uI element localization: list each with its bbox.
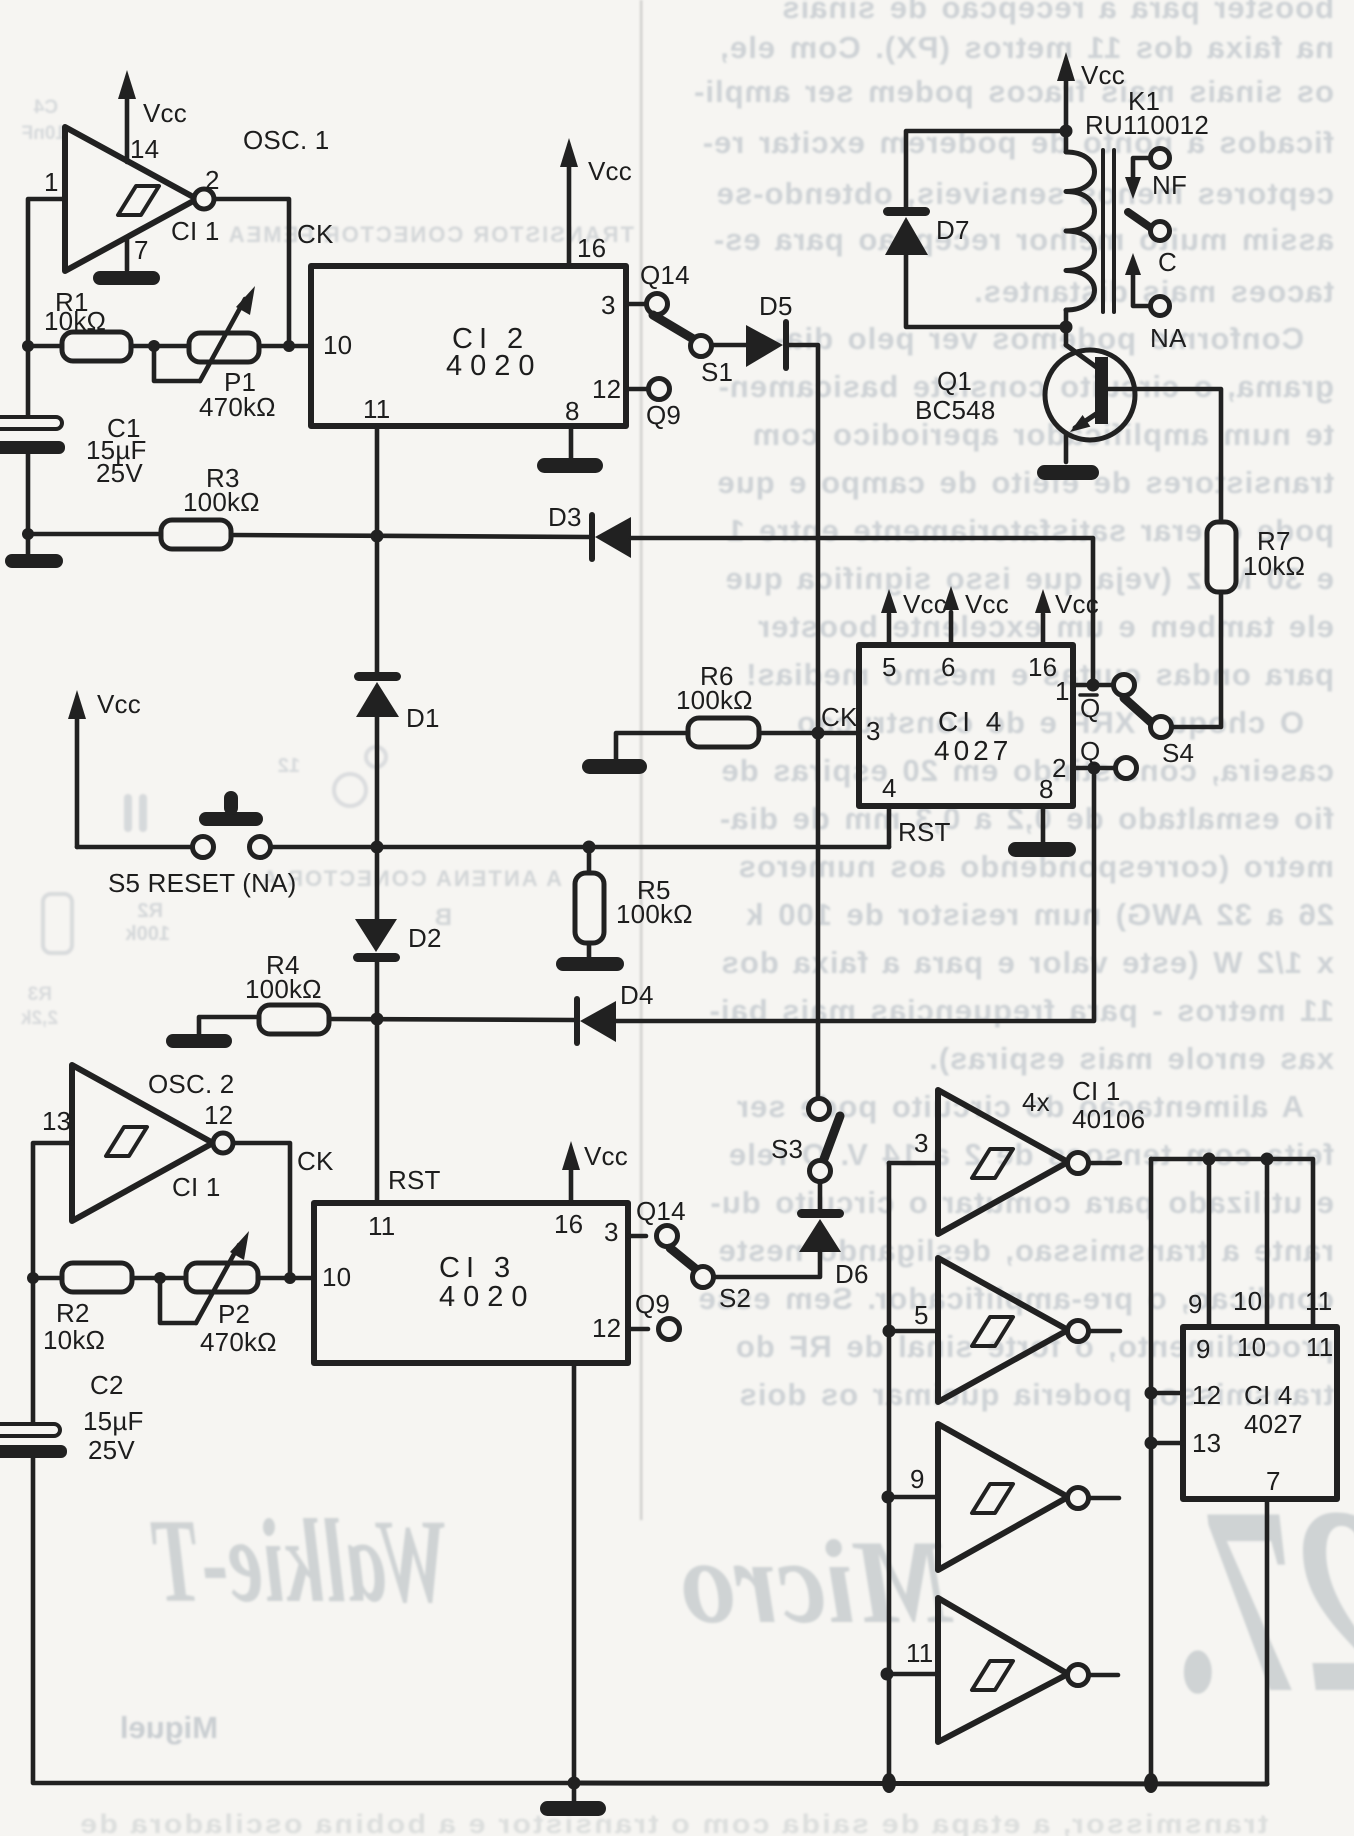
diode D1 [354,672,401,717]
wire D3 to Qbar column [631,538,1093,685]
wire CK feedback [214,199,289,346]
node R2 left [27,1272,39,1284]
svg-text:ele tambem e um excelente boos: ele tambem e um excelente booster [757,609,1334,644]
wire D7 bottom [906,255,1066,327]
diode D3 [592,515,631,559]
wire inverter A input [889,1161,938,1166]
relay contact C [1151,222,1170,241]
node inverter B input [883,1325,896,1338]
svg-text:P2: P2 [218,1299,250,1329]
svg-text:11: 11 [368,1211,395,1241]
svg-text:Walkie-T: Walkie-T [150,1494,450,1627]
svg-text:RU110012: RU110012 [1085,110,1209,140]
svg-text:os sinais mais fracos podem se: os sinais mais fracos podem ser ampli- [693,74,1334,109]
wire R7 to S4 [1172,592,1221,727]
svg-text:4027: 4027 [934,735,1012,766]
wire C1 top [26,346,31,417]
svg-text:10: 10 [322,1262,351,1292]
svg-text:3: 3 [601,290,616,320]
svg-text:S3: S3 [771,1134,803,1164]
svg-text:470kΩ: 470kΩ [199,392,276,422]
svg-text:16: 16 [554,1209,583,1239]
wire pin 2 [1073,766,1115,771]
wire [132,1276,186,1281]
diode D4 [577,999,616,1043]
svg-text:2: 2 [205,165,220,195]
svg-text:C2: C2 [90,1370,124,1400]
svg-text:D5: D5 [759,291,793,321]
node rail CI3 pin8 [568,1777,581,1790]
label Qbar [1080,693,1100,723]
svg-text:Q: Q [1080,736,1100,766]
svg-text:8: 8 [565,396,580,426]
node relay top [1060,125,1073,138]
switch S3 lever [824,1116,840,1159]
relay core bars [1103,150,1114,312]
switch S3 terminal bottom [810,1161,831,1182]
wire inverter B input [889,1329,938,1334]
node Q14 terminal CI3 [657,1226,678,1247]
ground CI4 pin 8 [1008,806,1076,857]
diode D7 [883,207,930,255]
node Q output terminal [1116,758,1137,779]
svg-text:12: 12 [1192,1380,1221,1410]
svg-text:Vcc: Vcc [97,689,141,719]
svg-text:xas enrole mais espiras).: xas enrole mais espiras). [928,1041,1334,1076]
svg-text:Miguel: Miguel [120,1710,218,1745]
svg-text:4020: 4020 [446,350,543,382]
Vcc arrow relay [1057,52,1075,131]
svg-text:100kΩ: 100kΩ [616,899,693,929]
wire top bus [1151,1159,1313,1327]
wire D4 to Q column [616,768,1094,1021]
wire pin 1 [1073,683,1113,688]
wire CI2 pin 11 down [375,426,380,536]
resistor R4 [259,1005,329,1034]
svg-text:13: 13 [1192,1428,1221,1458]
wire D6 to S2 [714,1252,820,1277]
svg-text:D1: D1 [406,703,440,733]
wire D1 to S5 line [375,717,380,847]
svg-text:1: 1 [44,167,59,197]
svg-text:D7: D7 [936,215,970,245]
node CK crossing [812,727,825,740]
wire pin 10 drop [1265,1159,1270,1327]
wire pin 3 CI3 [628,1234,646,1239]
IC CI2 4020 box [311,266,626,426]
svg-text:x 1/2 W (este valor e para a f: x 1/2 W (este valor e para a faixa dos [721,945,1334,980]
wire pin3 [626,302,646,307]
Vcc arrow OSC1 pin 14 [118,70,136,162]
svg-text:CI 4: CI 4 [1244,1380,1292,1410]
svg-text:12: 12 [204,1100,233,1130]
pushbutton S5 [193,791,271,858]
node Q9 terminal CI3 [659,1319,680,1340]
svg-text:3: 3 [604,1217,619,1247]
wire input OSC1 [28,199,65,346]
wire pin12 [626,387,648,392]
inverter D (pin 11) [938,1598,1118,1742]
svg-text:100kΩ: 100kΩ [245,974,322,1004]
svg-text:S1: S1 [701,357,733,387]
svg-text:10: 10 [1233,1286,1262,1316]
transistor Q1 [1045,327,1135,462]
svg-text:9: 9 [1196,1334,1211,1364]
wire input OSC2 [33,1143,72,1278]
svg-text:Q9: Q9 [635,1289,670,1319]
switch S4 terminal bottom [1151,717,1172,738]
switch S4 terminal top [1114,675,1135,696]
wire P2 wiper loop [160,1278,196,1323]
svg-text:Vcc: Vcc [1081,60,1125,90]
wire to D1 [375,536,380,674]
svg-text:Q: Q [1080,693,1100,723]
switch S1 lever [653,315,695,340]
svg-text:S2: S2 [719,1283,751,1313]
node Q junction [1088,762,1101,775]
wire to D2 [375,847,380,919]
wire S1 to D5 [712,343,746,348]
wire R4 to D4 [329,1019,574,1020]
wire D7 branch top [906,131,1066,209]
relay contact NF [1125,149,1170,200]
svg-text:25V: 25V [96,458,143,488]
svg-text:BC548: BC548 [915,395,996,425]
node D1 line crossing R3 wire [371,530,384,543]
wire S5 to RST [271,845,889,850]
Vcc arrow CI4 pin 16 [1035,589,1051,645]
node Q14 terminal [647,294,668,315]
svg-text:C4: C4 [33,97,58,118]
ground CI2 pin 8 [537,426,603,473]
svg-text:12: 12 [278,755,300,777]
wire Q1 base to R7 [1108,389,1221,522]
resistor R1 [62,332,131,361]
svg-text:7: 7 [134,235,149,265]
wire pin 12 stub [1151,1391,1183,1396]
relay coil K1 [1066,131,1095,327]
wire [131,344,190,349]
svg-text:Micro: Micro [680,1515,954,1648]
wire [28,344,62,349]
svg-text:1: 1 [1055,676,1070,706]
wire pin 13 stub [1151,1441,1183,1446]
svg-text:transistores de efeito de camp: transistores de efeito de campo e que [717,465,1334,500]
svg-text:na faixa dos 11 metros (PX). C: na faixa dos 11 metros (PX). Com ele, [719,30,1334,65]
svg-text:4027: 4027 [1244,1409,1303,1439]
node CK junction [283,340,295,352]
wire CK feedback OSC2 [233,1143,290,1278]
svg-text:RST: RST [898,817,951,847]
giant mirrored headline 27. Micro Walkie-To [150,1451,1354,1748]
IC CI4 4027 box (right) [1183,1327,1337,1499]
svg-text:S5 RESET (NA): S5 RESET (NA) [108,868,297,898]
svg-text:NF: NF [1152,170,1187,200]
node bus pin9 [1203,1153,1216,1166]
ground OSC1 pin 7 [93,237,160,285]
svg-text:40106: 40106 [1072,1104,1145,1134]
diode D6 [797,1209,844,1252]
wire pin 9 drop [1207,1159,1212,1327]
node Q9 terminal [649,379,670,400]
wire S3 to D6 [818,1182,823,1211]
svg-text:3: 3 [866,716,881,746]
svg-text:26 a 32 AWG) num resistor de 1: 26 a 32 AWG) num resistor de 100 k [745,897,1334,932]
svg-text:Vcc: Vcc [143,98,187,128]
svg-text:D6: D6 [835,1259,869,1289]
wire left bus rail [1149,1159,1154,1783]
svg-text:R3: R3 [28,984,52,1005]
Vcc arrow CI3 pin 16 [562,1141,580,1203]
svg-text:C: C [1158,247,1177,277]
node R2-P2 [154,1272,166,1284]
svg-text:5: 5 [914,1300,929,1330]
svg-text:10kΩ: 10kΩ [1243,551,1305,581]
node inverter C input [882,1491,895,1504]
svg-text:Vcc: Vcc [588,156,632,186]
svg-text:grama, o circuito consiste bas: grama, o circuito consiste basicamen- [718,369,1334,404]
svg-text:Vcc: Vcc [584,1141,628,1171]
svg-text:13: 13 [42,1106,71,1136]
wire D5 to S3 column [786,345,818,1098]
node S5 line crossing [371,841,384,854]
svg-text:D3: D3 [548,502,582,532]
wire inverter D input [887,1672,938,1677]
wire R6 to CI4 pin3 [759,731,859,736]
svg-text:2,2k: 2,2k [21,1008,58,1029]
svg-text:CK: CK [821,702,858,732]
svg-text:OSC. 2: OSC. 2 [148,1069,234,1099]
svg-text:100kΩ: 100kΩ [676,685,753,715]
svg-text:ceptores menos sensiveis, obte: ceptores menos sensiveis, obtendo-se [716,176,1334,211]
svg-text:9: 9 [910,1464,925,1494]
svg-text:15µF: 15µF [83,1406,144,1436]
svg-text:16: 16 [1028,652,1057,682]
svg-text:25V: 25V [88,1435,135,1465]
node R4 line crossing [371,1013,384,1026]
svg-text:A ANTENA CONECTOR A: A ANTENA CONECTOR A [260,866,562,891]
wire [33,1276,62,1281]
svg-text:RST: RST [388,1165,441,1195]
svg-text:12: 12 [592,374,621,404]
svg-text:10kΩ: 10kΩ [43,1325,105,1355]
node R1 left [22,340,34,352]
svg-text:te num amplificador aperiodico: te num amplificador aperiodico com [752,417,1334,452]
svg-text:CI 1: CI 1 [172,1172,220,1202]
wire Vcc to S5 [77,845,192,850]
switch S3 terminal top [809,1099,830,1120]
svg-text:CI 1: CI 1 [171,216,219,246]
wire inverter C input [888,1495,938,1500]
column rule (page divider ghost) [640,0,642,1520]
svg-text:OSC. 1: OSC. 1 [243,125,329,155]
IC CI4 4027 box [859,645,1073,806]
Vcc arrow CI4 pin 5 [881,589,897,645]
svg-text:4020: 4020 [439,1281,536,1313]
resistor R6 [688,718,759,747]
svg-text:caseira, consistindo em 20 esp: caseira, consistindo em 20 espiras de [720,753,1334,788]
node R3 left [22,528,34,540]
svg-text:7: 7 [1266,1466,1281,1496]
wire C2 top [31,1278,36,1424]
wire C2 to bottom rail [33,1458,574,1783]
svg-text:CK: CK [297,1146,334,1176]
svg-text:booster para a recepcao de sin: booster para a recepcao de sinais [781,0,1334,25]
svg-text:6: 6 [941,652,956,682]
wire input rail 40106 [887,1163,892,1783]
node CK junction OSC2 [284,1272,296,1284]
node rail CI4 [1144,1773,1158,1793]
diode D5 [746,322,786,368]
wire [259,344,311,349]
svg-text:R2: R2 [137,900,163,922]
node inverter D input [881,1668,894,1681]
inverter A (pin 3) [938,1090,1120,1234]
wire D2 to R4 line [375,962,380,1019]
capacitor C1 [0,417,65,454]
svg-text:10nF: 10nF [22,123,66,144]
Vcc arrow CI2 pin 16 [560,138,578,266]
svg-text:12: 12 [592,1313,621,1343]
node pin 13 [1145,1437,1158,1450]
resistor R7 [1207,522,1236,592]
svg-text:8: 8 [1039,774,1054,804]
switch S2 lever [670,1248,697,1270]
node Qbar junction [1087,679,1100,692]
svg-text:5: 5 [882,652,897,682]
wire C1 bottom [26,454,31,554]
wire bottom rail [574,1783,1267,1784]
svg-text:transmissor, a etapa de saida: transmissor, a etapa de saida com o tran… [78,1809,1268,1836]
svg-text:D2: D2 [408,923,442,953]
ground R6 [582,733,688,774]
node rail 40106 [882,1773,896,1793]
resistor R3 [161,520,231,549]
node pin 12 [1145,1387,1158,1400]
op-amp U: Schmitt inverter CI 1 (OSC.1) [65,127,214,271]
switch S4 lever [1124,698,1153,724]
wire RST riser [887,806,892,847]
resistor R5 [575,847,604,943]
wire [258,1276,314,1281]
svg-text:4x: 4x [1022,1087,1050,1117]
svg-text:Q14: Q14 [640,260,690,290]
svg-text:10kΩ: 10kΩ [44,306,106,336]
node R5 top [583,841,596,854]
svg-text:3: 3 [914,1128,929,1158]
svg-text:16: 16 [577,233,606,263]
Vcc arrow CI4 pin 6 [943,586,959,645]
svg-text:CI 4: CI 4 [938,706,1005,737]
svg-text:NA: NA [1150,323,1187,353]
svg-text:27.: 27. [1170,1451,1354,1748]
relay lever [1128,212,1151,228]
svg-text:14: 14 [130,134,159,164]
svg-text:470kΩ: 470kΩ [200,1327,277,1357]
svg-text:Q14: Q14 [636,1196,686,1226]
node bus pin10 [1261,1153,1274,1166]
wire CI3 pin 8 to rail [572,1363,577,1783]
svg-text:assim muito melhor recepcao pa: assim muito melhor recepcao para es- [713,222,1334,257]
node relay bottom [1060,321,1073,334]
svg-text:9: 9 [1188,1289,1203,1319]
ground C1 [5,554,63,568]
svg-text:S4: S4 [1162,738,1194,768]
node R1-P1 [148,340,160,352]
ground bottom rail [540,1783,606,1816]
resistor R2 [62,1263,132,1292]
svg-text:CI 3: CI 3 [439,1252,516,1284]
wire pin 7 to rail [1265,1499,1270,1784]
inverter B (pin 5) [938,1258,1120,1402]
ground Q1 emitter [1037,465,1099,480]
diode D2 [353,919,400,962]
wire R3 left [28,532,161,537]
svg-text:11: 11 [363,394,390,424]
switch S1 terminal [691,336,712,357]
potentiometer P2 [186,1231,258,1323]
svg-text:11: 11 [1306,1332,1333,1362]
svg-text:Vcc: Vcc [1055,589,1099,619]
svg-text:R2: R2 [56,1298,90,1328]
wire R3 to D3 [231,535,589,537]
svg-text:Vcc: Vcc [965,589,1009,619]
svg-text:4: 4 [882,773,897,803]
svg-text:10: 10 [323,330,352,360]
IC CI3 4020 box [314,1203,628,1363]
Vcc arrow S5 [68,690,86,847]
svg-text:Q9: Q9 [646,400,681,430]
relay contact NA [1125,253,1170,316]
svg-text:11: 11 [906,1638,933,1668]
op-amp: Schmitt inverter CI 1 (OSC.2) [72,1065,233,1221]
svg-text:10: 10 [1237,1332,1266,1362]
svg-text:Vcc: Vcc [903,589,947,619]
ground R5 [556,943,624,971]
inverter C (pin 9) [938,1424,1119,1570]
switch S2 terminal [693,1267,714,1288]
svg-text:2: 2 [1052,753,1067,783]
ground R4 [166,1017,259,1048]
svg-text:100k: 100k [125,923,170,945]
svg-text:11: 11 [1305,1286,1332,1316]
svg-text:CK: CK [297,219,334,249]
capacitor C2 [0,1424,67,1458]
potentiometer P1 [189,286,259,381]
wire to CI3 pin 11 [375,1019,380,1203]
svg-text:100kΩ: 100kΩ [183,487,260,517]
svg-text:Q1: Q1 [937,366,972,396]
wire P1 wiper loop [154,346,200,381]
wire pin 12 CI3 [628,1327,648,1332]
svg-text:D4: D4 [620,980,654,1010]
svg-text:CI 1: CI 1 [1072,1076,1120,1106]
